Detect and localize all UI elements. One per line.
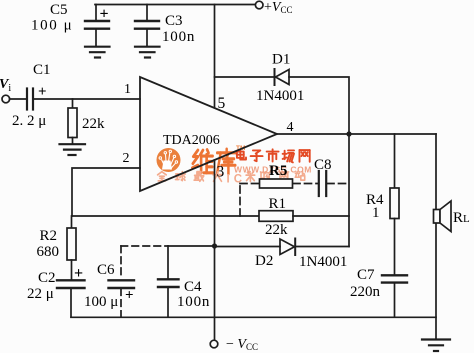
svg-text:C1: C1 bbox=[33, 62, 51, 78]
svg-text:22 μ: 22 μ bbox=[27, 286, 54, 302]
wire feedback rail right bbox=[293, 215, 349, 217]
svg-text:100 μ: 100 μ bbox=[84, 294, 118, 310]
input terminal Vi bbox=[2, 95, 10, 103]
svg-text:C6: C6 bbox=[97, 262, 115, 278]
op-amp U1 TDA2006 bbox=[140, 77, 277, 191]
wire top rail bbox=[95, 4, 256, 6]
svg-text:1: 1 bbox=[372, 205, 380, 221]
svg-text:TDA2006: TDA2006 bbox=[163, 133, 220, 148]
resistor R4 bbox=[390, 134, 399, 275]
wire speaker branch bbox=[435, 134, 437, 339]
svg-text:+: + bbox=[100, 6, 109, 23]
svg-text:1: 1 bbox=[124, 82, 131, 97]
wire C6 node to pin3 line bbox=[168, 245, 215, 247]
wire feedback rail left bbox=[72, 215, 259, 217]
wire output bus vertical bbox=[348, 134, 350, 247]
capacitor C1 bbox=[27, 89, 33, 110]
ground (under C5) bbox=[85, 47, 110, 58]
terminal -Vcc bbox=[210, 340, 218, 348]
svg-text:22k: 22k bbox=[265, 222, 288, 238]
wire Vcc to pin 5 bbox=[214, 5, 216, 108]
capacitor C8 bbox=[319, 171, 326, 196]
wire C8 to output bus (dashed) bbox=[327, 183, 349, 185]
svg-text:C4: C4 bbox=[184, 279, 202, 295]
resistor R5 bbox=[260, 179, 293, 188]
resistor R2 bbox=[67, 216, 76, 279]
svg-text:+: + bbox=[74, 265, 83, 282]
capacitor C6 (dashed leads) bbox=[109, 246, 135, 317]
svg-text:4: 4 bbox=[287, 120, 294, 135]
svg-text:100 μ: 100 μ bbox=[31, 18, 73, 34]
node (output junction) bbox=[346, 131, 351, 136]
svg-text:1N4001: 1N4001 bbox=[256, 88, 304, 104]
svg-text:+: + bbox=[125, 288, 134, 304]
svg-text:+: + bbox=[38, 84, 47, 100]
wire D1 anode side bbox=[289, 77, 349, 134]
svg-text:C2: C2 bbox=[38, 270, 56, 286]
wire D1 cathode side bbox=[215, 76, 275, 78]
svg-text:C5: C5 bbox=[50, 2, 68, 18]
wire output bbox=[277, 133, 436, 135]
resistor 22k (input bias) bbox=[68, 99, 77, 144]
wire C1 to pin 1 bbox=[34, 98, 140, 100]
svg-text:C3: C3 bbox=[165, 13, 183, 29]
wire C6 node (dashed part) bbox=[121, 245, 168, 247]
wire D2 cathode side bbox=[295, 246, 349, 248]
wire input to C1 bbox=[10, 98, 26, 100]
svg-text:3: 3 bbox=[217, 164, 225, 181]
svg-text:D1: D1 bbox=[272, 52, 290, 68]
diode D1 bbox=[275, 69, 290, 85]
watermark logo bbox=[157, 148, 181, 172]
svg-text:5: 5 bbox=[218, 95, 226, 112]
diode D2 bbox=[280, 239, 295, 256]
ground (under 22k) bbox=[60, 144, 86, 155]
capacitor C7 bbox=[382, 275, 407, 317]
capacitor C4 bbox=[158, 246, 179, 317]
wire R5 to C8 (dashed) bbox=[293, 183, 318, 185]
svg-text:C7: C7 bbox=[357, 267, 375, 283]
svg-text:220n: 220n bbox=[350, 284, 381, 300]
ground (under C3) bbox=[135, 47, 160, 58]
capacitor C5 bbox=[85, 5, 109, 47]
wire R5 branch (dashed) bbox=[240, 184, 260, 217]
resistor R1 bbox=[259, 211, 293, 222]
wire pin 3 to -Vcc bbox=[214, 160, 216, 340]
svg-text:C8: C8 bbox=[314, 157, 332, 173]
svg-text:1N4001: 1N4001 bbox=[299, 254, 347, 270]
svg-text:680: 680 bbox=[37, 244, 60, 260]
watermark text bbox=[158, 145, 312, 186]
svg-text:R1: R1 bbox=[269, 196, 287, 212]
svg-text:100n: 100n bbox=[177, 294, 210, 310]
svg-text:R5: R5 bbox=[269, 163, 287, 179]
wire D2 anode side bbox=[215, 246, 281, 248]
wire bottom rail bbox=[71, 316, 436, 318]
svg-text:R2: R2 bbox=[40, 228, 58, 244]
svg-text:2: 2 bbox=[123, 151, 130, 166]
capacitor C3 bbox=[135, 5, 159, 47]
svg-text:D2: D2 bbox=[255, 253, 273, 269]
svg-text:100n: 100n bbox=[162, 29, 195, 45]
svg-text:22k: 22k bbox=[82, 116, 105, 132]
speaker RL bbox=[434, 201, 452, 232]
svg-text:2. 2 μ: 2. 2 μ bbox=[12, 113, 46, 129]
svg-text:RL: RL bbox=[453, 210, 470, 226]
terminal +Vcc bbox=[255, 1, 263, 9]
node (D2 / C6 / pin3 junction) bbox=[212, 243, 217, 248]
capacitor C2 bbox=[57, 280, 85, 317]
wire pin 2 bbox=[72, 168, 140, 216]
ground (speaker) bbox=[422, 340, 450, 352]
